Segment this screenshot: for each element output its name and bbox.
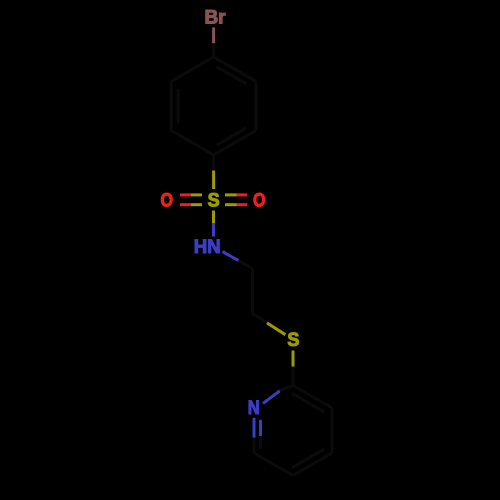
S1=O right double bond sulfur halves xyxy=(225,193,237,196)
svg-text:O: O xyxy=(253,191,266,212)
benzene ring C4-C3a double xyxy=(214,57,256,82)
pyridine C3-C4 single xyxy=(331,408,334,453)
benzene ring C6a-C5a double xyxy=(170,81,173,130)
svg-text:S: S xyxy=(208,191,220,212)
svg-text:N: N xyxy=(248,398,260,419)
benzene ring C3a-C2a single xyxy=(255,81,258,130)
pyridine N1-C2 carbon half xyxy=(280,386,293,391)
pyridine C4=C5 double xyxy=(293,453,332,476)
bond N-CH2(A) nitrogen half xyxy=(223,252,239,261)
bond S2-C2p carbon half xyxy=(292,367,295,386)
svg-text:HN: HN xyxy=(194,237,221,258)
S1=O right double bond red halves xyxy=(237,193,248,196)
bond Br-C4 carbon half xyxy=(212,43,215,57)
benzene ring C2a-C1 double xyxy=(214,130,256,155)
svg-text:Br: Br xyxy=(204,7,226,28)
benzene ring C5a-C4 single xyxy=(171,57,213,82)
svg-text:O: O xyxy=(161,191,174,212)
bond C1-S1 carbon half xyxy=(212,155,215,171)
benzene ring C1-C6a single xyxy=(171,130,213,155)
bond CH2(B)-S2 sulfur half xyxy=(267,323,285,335)
svg-text:S: S xyxy=(287,330,299,351)
bond S1-N sulfur half xyxy=(212,211,215,224)
bond N-CH2(A) carbon half xyxy=(239,261,253,269)
bond CH2(B)-S2 carbon half xyxy=(253,314,268,323)
S1=O left double bond red halves xyxy=(180,193,191,196)
bond Br-C4 maroon half xyxy=(212,27,215,43)
bond S1-N nitrogen half xyxy=(212,223,215,237)
bond S2-C2p sulfur half xyxy=(292,351,295,367)
bond CH2(A)-CH2(B) xyxy=(251,269,254,314)
pyridine N1-C2 nitrogen half xyxy=(263,391,280,404)
pyridine C5-C6 single xyxy=(254,453,293,476)
bond C1-S1 sulfur half xyxy=(212,171,215,190)
pyridine C6=N1 double carbon halves xyxy=(253,438,256,454)
S1=O left double bond sulfur halves xyxy=(191,193,202,196)
pyridine C2=C3 double xyxy=(293,386,332,409)
pyridine C6=N1 double nitrogen halves xyxy=(253,418,256,438)
